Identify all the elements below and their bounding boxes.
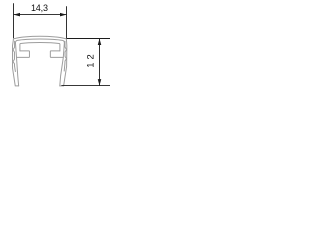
arrowhead down 12 — [98, 79, 102, 86]
extension line bottom of 12 — [61, 85, 110, 87]
dimension line 12 — [99, 39, 101, 86]
left leg inner wall face with hinge notches — [13, 41, 15, 71]
svg-text:14,3: 14,3 — [31, 3, 48, 13]
right tab (diffuser ledge) — [50, 51, 63, 58]
arrowhead left 14,3 — [14, 13, 21, 17]
dimension line 14,3 — [14, 14, 67, 16]
extension line right of 14,3 — [66, 6, 68, 38]
inner box arch (hat cavity bottom) with spines — [20, 42, 60, 50]
left tab (diffuser ledge) — [17, 51, 30, 58]
arrowhead up 12 — [98, 39, 102, 46]
profile outer contour (arched hat top + left leg with teeth + feet + right leg) — [13, 36, 67, 86]
svg-text:12: 12 — [84, 51, 95, 67]
extension line top of 12 — [67, 38, 111, 40]
profile inner wall contour (inner arch + cavity walls down to feet) — [15, 39, 64, 86]
extension line left of 14,3 — [13, 3, 15, 38]
arrowhead right 14,3 — [60, 13, 67, 17]
right leg inner wall face with hinge notches — [64, 41, 66, 71]
dimension graphics — [14, 3, 111, 85]
